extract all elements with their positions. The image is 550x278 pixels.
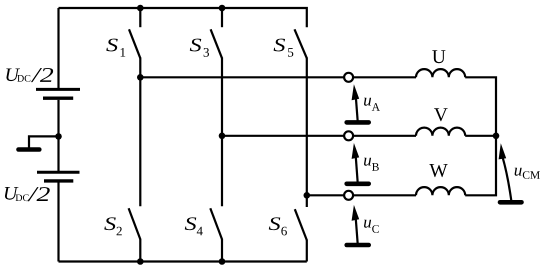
battery upper UDC/2	[36, 89, 80, 98]
arrow uCM	[499, 143, 522, 202]
node bottom rail leg2	[219, 258, 226, 265]
node bottom rail leg1	[137, 258, 144, 265]
wire W to right rail	[465, 136, 496, 196]
switch S3	[211, 8, 222, 58]
label uCM	[515, 168, 540, 179]
wire left rail middle	[57, 100, 59, 171]
node DC midpoint junction	[55, 133, 62, 140]
label S6	[269, 217, 287, 235]
wire ground tap	[29, 136, 59, 147]
wire bottom rail	[59, 260, 307, 262]
wire V to right rail	[465, 135, 496, 137]
label uB	[364, 158, 379, 171]
wire leg3 bottom	[306, 240, 308, 262]
wire phase A row	[140, 76, 344, 78]
arrow uA	[347, 84, 369, 122]
label uA	[364, 98, 380, 111]
label S4	[185, 217, 203, 235]
node phase A tap	[137, 74, 144, 81]
node phase B tap	[219, 133, 226, 140]
wire phase C row	[307, 194, 344, 196]
wire top rail	[59, 8, 307, 27]
inductor V	[416, 128, 465, 136]
wire B to inductor V	[353, 135, 416, 137]
arrow uC	[347, 205, 369, 245]
switch S4	[210, 208, 222, 239]
wire leg1 bottom	[139, 239, 141, 262]
node phase C tap	[304, 192, 311, 199]
label S3	[190, 39, 209, 57]
node top rail leg1	[137, 5, 144, 12]
node neutral star point	[493, 133, 500, 140]
wire leg3 middle	[306, 58, 308, 208]
inductor W	[416, 187, 465, 195]
label S2	[104, 217, 122, 235]
switch S1	[129, 8, 140, 58]
node top rail leg2	[219, 5, 226, 12]
battery lower UDC/2	[37, 172, 80, 181]
inductor U	[416, 69, 465, 77]
label uC	[364, 220, 379, 233]
label S1	[106, 39, 125, 57]
label phase U	[432, 50, 445, 63]
arrow uB	[347, 143, 369, 184]
ground (DC midpoint)	[19, 147, 40, 152]
wire leg2 middle	[221, 58, 223, 207]
label S5	[274, 39, 294, 57]
node terminal A	[344, 73, 353, 82]
wire U to right rail	[465, 77, 496, 136]
label UDC/2 upper	[6, 68, 53, 82]
node terminal C	[344, 191, 353, 200]
switch S2	[129, 208, 141, 239]
wire left rail lower	[57, 183, 59, 262]
wire A to inductor U	[353, 76, 416, 78]
wire leg2 bottom	[221, 239, 223, 262]
node terminal B	[344, 131, 353, 140]
wire left rail upper	[57, 8, 59, 88]
label phase W	[429, 164, 447, 177]
label UDC/2 lower	[5, 187, 50, 201]
switch S6	[295, 209, 307, 240]
wire leg1 middle	[139, 58, 141, 207]
switch S5	[295, 29, 307, 58]
wire C to inductor W	[353, 194, 416, 196]
label phase V	[434, 108, 448, 121]
wire phase B row	[222, 135, 344, 137]
